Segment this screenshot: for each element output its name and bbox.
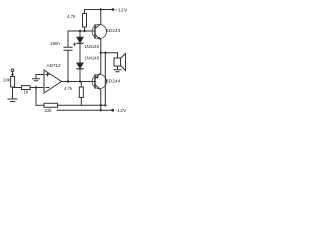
wire op-amp output [62,81,95,83]
svg-text:180n: 180n [50,41,60,46]
+12V rail [85,9,114,11]
node collector junction [100,8,102,10]
transistor Q1 BD243 [92,24,106,38]
svg-text:+12V: +12V [115,8,128,14]
-12V terminal [111,109,114,112]
+12V terminal [112,8,115,11]
svg-text:AD712: AD712 [47,63,61,68]
ground [33,75,40,81]
resistor R5 22k [36,104,44,106]
svg-text:10k: 10k [3,78,11,83]
feedback riser [104,53,106,106]
capacitor polarity mark [73,43,76,46]
svg-text:22k: 22k [45,108,53,113]
svg-text:BD244: BD244 [106,78,121,83]
node resistor bottom [83,30,85,32]
wire [12,72,14,77]
diode D2 1N4148 [79,69,81,81]
svg-text:-12V: -12V [116,108,128,114]
svg-text:1N4148: 1N4148 [85,56,100,61]
input terminal [11,69,14,72]
output node wire [101,52,118,54]
wire [13,87,22,89]
transistor Q2 BD244 [92,74,106,88]
capacitor C1 180n [64,31,72,82]
wire [30,87,44,89]
svg-text:1k: 1k [24,90,29,95]
op-amp U1 AD712 [44,70,62,93]
resistor R2 1k [22,86,31,90]
node diode bottom [79,80,81,82]
svg-text:4.7k: 4.7k [64,86,73,91]
resistor R1 10k [11,77,15,88]
wire [35,88,37,106]
wire node A [68,30,95,32]
svg-text:1N4148: 1N4148 [85,44,100,49]
node cap bottom [67,80,69,82]
resistor R3 4.7k top [84,10,86,14]
speaker LS1 [117,53,119,58]
wire [12,87,14,99]
node input junction [11,73,13,75]
node diode top [79,30,81,32]
svg-text:BD243: BD243 [106,28,121,33]
node collector cross [100,104,102,106]
-12V rail [57,109,113,111]
svg-text:4.7k: 4.7k [67,14,76,19]
diode D1 1N4148 [79,31,81,63]
resistor R4 4.7k bottom [80,82,82,88]
node feedback junction [35,86,37,88]
wire [36,74,44,76]
ground [8,98,17,100]
ground [114,66,121,72]
